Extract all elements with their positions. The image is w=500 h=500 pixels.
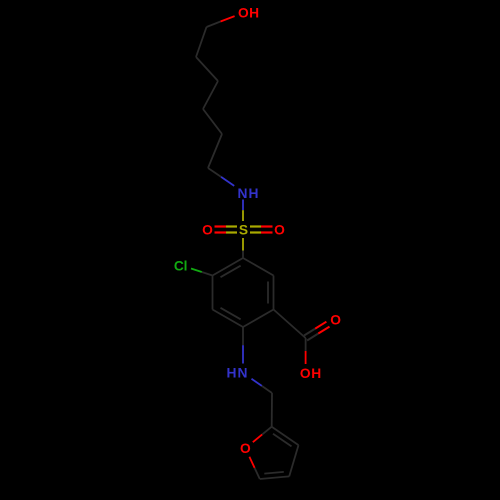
svg-text:N: N — [238, 186, 248, 201]
svg-text:H: H — [249, 6, 259, 21]
bond ring-COOH carbon — [274, 310, 306, 339]
bond C-OH of carboxyl — [305, 338, 307, 351]
C=O double bond of carboxyl — [307, 334, 318, 341]
bond Cl-ring — [191, 269, 202, 273]
ring bond UR-LR — [273, 276, 275, 310]
bond C3-C4 — [203, 81, 218, 109]
furan bond C2-C3 — [272, 427, 299, 445]
svg-text:H: H — [249, 186, 259, 201]
svg-text:H: H — [227, 366, 237, 381]
ring bond top-UR — [243, 258, 274, 276]
ring inner double bottom-LL — [221, 308, 241, 320]
furan inner double C4-C5 — [264, 472, 284, 474]
S=O left double bond — [215, 225, 227, 227]
svg-text:H: H — [311, 366, 321, 381]
bond C4-C5 — [203, 109, 222, 134]
svg-text:O: O — [274, 223, 285, 238]
bond S-ring — [242, 238, 244, 251]
bond N-CH2 — [252, 379, 262, 386]
svg-text:O: O — [238, 6, 249, 21]
bond C1-C2 — [196, 27, 207, 57]
ring bond bottom-LL — [213, 310, 244, 328]
ring bond LL-UL — [212, 276, 214, 310]
bond O-C1 (hydroxyl to chain) — [221, 16, 235, 21]
svg-text:O: O — [300, 366, 311, 381]
furan bond O-C5 — [249, 457, 254, 468]
ring inner double UR-LR — [267, 282, 269, 304]
svg-text:C: C — [174, 258, 184, 273]
ring inner double UL-top — [221, 266, 241, 278]
furan bond O-C2 — [253, 434, 262, 442]
svg-text:O: O — [202, 223, 213, 238]
bond C5-C6 — [208, 134, 222, 168]
bond N-S — [242, 200, 244, 211]
bond ring-N (amine) — [242, 327, 244, 345]
bond C2-C3 — [196, 57, 218, 81]
S=O right double bond — [250, 225, 261, 227]
svg-text:S: S — [239, 223, 248, 238]
svg-text:l: l — [184, 258, 188, 273]
svg-text:O: O — [330, 313, 341, 328]
furan bond C3-C4 — [289, 445, 298, 476]
ring bond LR-bottom — [243, 310, 274, 328]
bond CH2-furan C2 — [271, 393, 273, 427]
svg-text:O: O — [240, 441, 251, 456]
furan inner double C2-C3 — [273, 434, 292, 447]
ring bond UL-top — [213, 258, 244, 276]
bond C6-N (sulfonamide N) — [208, 168, 221, 177]
furan bond C4-C5 — [260, 476, 289, 479]
svg-text:N: N — [238, 366, 248, 381]
